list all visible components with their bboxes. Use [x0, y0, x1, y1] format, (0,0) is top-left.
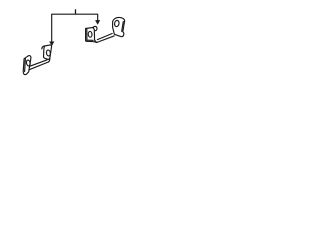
- left bracket: connecting strip bottom edge: [29, 62, 49, 70]
- left bracket: connecting strip top edge: [30, 60, 47, 66]
- label 1 tick: [75, 9, 77, 14]
- left bracket: left tab hole: [26, 60, 31, 67]
- right bracket: right tab thickness line: [122, 22, 124, 32]
- left bracket: left tab thickness line: [24, 58, 27, 71]
- left bracket: right tab plate: [43, 45, 51, 60]
- right bracket: left tab top lip hook: [93, 26, 97, 30]
- left bracket: left tab plate: [23, 56, 31, 75]
- arrow to left bracket: [50, 42, 54, 46]
- right bracket: left tab hole: [88, 31, 92, 37]
- callout bracket line for item 1: [52, 14, 98, 42]
- right bracket: left tab thickness line: [86, 29, 88, 41]
- background: [0, 0, 150, 84]
- left bracket: strip right end cap: [48, 58, 50, 62]
- arrow to right bracket: [96, 20, 100, 24]
- left bracket: right tab lip: [42, 46, 45, 49]
- right bracket: connecting strip bottom edge: [97, 36, 114, 43]
- right bracket: connecting strip top edge: [97, 34, 112, 40]
- left bracket: right tab hole: [46, 50, 51, 56]
- right bracket: left tab plate: [86, 27, 97, 42]
- right bracket: right tab plate: [113, 17, 125, 36]
- right bracket: right tab hole: [114, 20, 120, 27]
- right bracket: left tab bottom inner line: [87, 39, 93, 41]
